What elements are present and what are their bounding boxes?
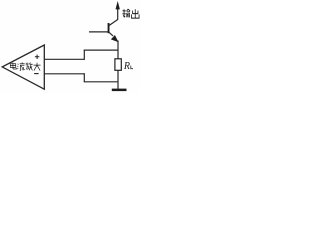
wire: horizontal y=81.2 to ground node xyxy=(84,81,118,83)
wire: amp - output to bend xyxy=(44,73,84,75)
glyph 输 xyxy=(122,9,130,17)
op-amp U1 (current amplifier triangle) xyxy=(2,45,44,89)
plus sign (+ input mark) xyxy=(35,55,39,59)
glyph 流 xyxy=(17,62,24,70)
minus sign (- input mark) xyxy=(34,73,39,75)
glyph 放 xyxy=(25,62,32,70)
resistor RL body xyxy=(115,59,121,71)
glyph 电 xyxy=(10,63,16,69)
wire: vertical riser x=84.3 lower xyxy=(83,73,85,82)
label RL subscript L xyxy=(131,66,133,69)
transistor Q1 base bar xyxy=(108,23,110,33)
label RL xyxy=(123,61,130,72)
glyph 出 xyxy=(131,9,139,18)
background xyxy=(0,0,140,94)
transistor Q1 collector lead xyxy=(109,19,118,25)
label 输出 (output) : hand-drawn glyphs xyxy=(122,9,139,18)
output arrow (to 输出) xyxy=(116,1,120,9)
label 电流放大 (current amplification) : hand-drawn glyphs xyxy=(10,62,40,70)
wire: base lead of Q1 xyxy=(89,31,108,33)
wire: emitter vertical down to resistor xyxy=(117,41,119,59)
wire: amp + output to bend xyxy=(44,58,84,60)
glyph 大 xyxy=(34,63,41,71)
ground xyxy=(112,89,127,92)
wire: vertical riser x=84.3 upper xyxy=(83,50,85,60)
transistor Q1 emitter arrowhead xyxy=(111,35,119,42)
wire: horizontal y=49.7 to emitter node xyxy=(84,49,118,51)
wire: collector up to output arrow xyxy=(117,9,119,20)
svg-text:R: R xyxy=(123,61,130,72)
transistor Q1 emitter lead xyxy=(109,32,113,36)
wire: resistor bottom to ground xyxy=(117,70,119,89)
